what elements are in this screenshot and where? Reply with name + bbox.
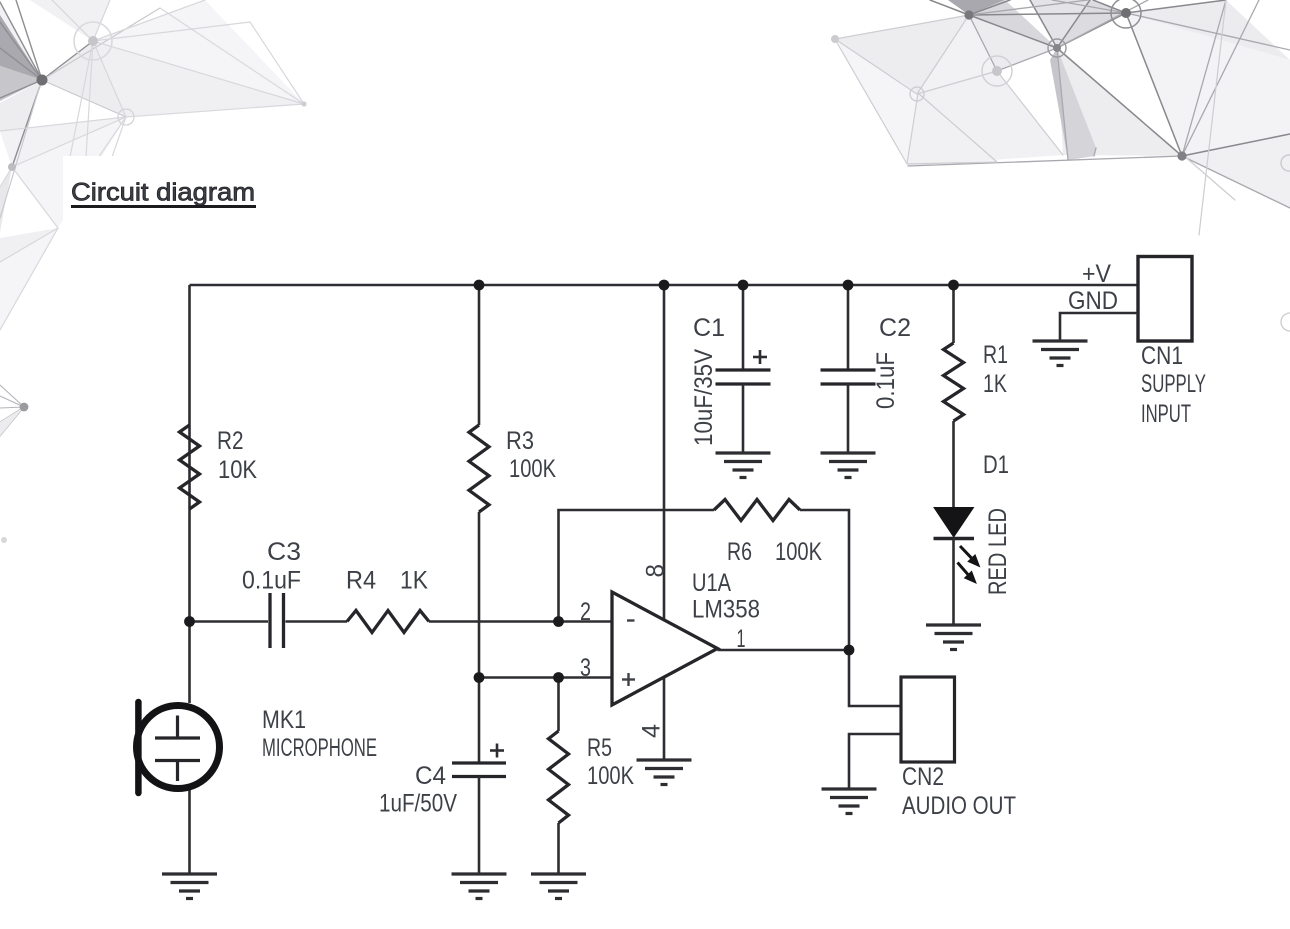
svg-text:R3: R3 [506,427,534,455]
svg-text:Circuit diagram: Circuit diagram [71,179,255,207]
resistor R5 [549,731,569,823]
junction node at pin 2 / feedback [553,616,564,627]
svg-text:SUPPLY: SUPPLY [1141,370,1206,398]
svg-text:+V: +V [1082,260,1111,288]
wire C1 to ground [742,384,745,453]
wire CN1 GND pin to ground [1060,313,1138,341]
svg-text:GND: GND [1068,287,1118,315]
svg-text:R1: R1 [983,341,1008,369]
svg-text:4: 4 [638,724,666,738]
ground under R5 [531,874,586,899]
ground under CN1 [1033,341,1088,366]
svg-text:C4: C4 [415,762,446,790]
svg-text:R2: R2 [217,427,244,455]
svg-text:AUDIO OUT: AUDIO OUT [902,792,1016,820]
microphone MK1 element plates [155,716,200,782]
wire output node down to CN2 pin 1 [849,650,901,706]
plus sign inside op-amp [622,673,635,686]
wire op-amp output to node [718,649,850,652]
svg-text:R6: R6 [727,538,752,566]
junction node on rail at C2 [843,280,854,291]
capacitor C1 polarized [716,370,771,384]
junction node on rail at R1 [948,280,959,291]
ground under C2 [821,453,876,478]
connector CN2 [901,677,955,762]
svg-text:MICROPHONE: MICROPHONE [262,734,377,762]
wire pin3 node to R5 [557,678,560,732]
svg-text:1: 1 [737,625,746,653]
resistor R4 [347,611,429,633]
capacitor C1 wire from rail [742,285,745,370]
junction node on rail at pin 8 [659,280,670,291]
minus sign inside op-amp [627,619,635,621]
svg-text:C2: C2 [879,314,911,342]
wire LED to ground [952,539,955,626]
capacitor C2 [821,370,876,384]
svg-text:INPUT: INPUT [1141,400,1191,428]
LED D1 red [934,508,974,538]
svg-text:R5: R5 [587,734,612,762]
resistor R2 [180,425,200,509]
svg-text:1K: 1K [983,370,1007,398]
svg-text:10K: 10K [218,456,257,484]
LED D1 cathode bar [934,537,975,541]
wire R3 to C4 crossing minus-input wire [478,512,481,763]
wire C3 to R4 [286,620,348,623]
svg-text:C3: C3 [267,538,301,566]
title underline [71,205,256,208]
svg-text:3: 3 [580,654,591,682]
ground under CN2 [822,789,877,814]
ground under C4 [452,874,507,899]
svg-text:100K: 100K [509,455,556,483]
junction node on rail at C1 [738,280,749,291]
wire feedback from pin 2 node up and to R6 [559,510,715,622]
wire R6 to output node [800,510,849,650]
svg-text:10uF/35V: 10uF/35V [690,349,718,446]
plus sign of C4 [490,744,504,758]
wire C2 to ground [847,384,850,453]
op-amp U1A LM358 [612,592,718,705]
wire op-amp pin 4 to ground [663,678,666,761]
ground at op-amp pin 4 [637,760,692,785]
wire op-amp pin 8 to +V rail [663,285,666,620]
wire R5 to ground [557,823,560,874]
junction node at pin 3 / R5 [553,672,564,683]
wire R1 to LED D1 [952,421,955,507]
resistor R6 [714,500,800,521]
wire node A to C3 [190,620,269,623]
svg-text:0.1uF: 0.1uF [872,352,900,409]
svg-text:0.1uF: 0.1uF [242,567,301,595]
wire microphone to ground [188,790,191,874]
resistor R3 [469,425,489,512]
LED D1 emission arrow 1 [960,546,980,567]
resistor R1 [944,343,964,421]
svg-text:U1A: U1A [692,569,731,597]
wire op-amp pin 3 line [479,676,612,679]
svg-text:100K: 100K [775,538,822,566]
wire +V top rail [190,284,1139,287]
svg-text:RED LED: RED LED [984,508,1012,595]
wire R1 branch from rail [952,285,955,343]
svg-text:LM358: LM358 [692,596,760,624]
junction node on rail at R3 [474,280,485,291]
svg-text:CN2: CN2 [902,763,944,791]
svg-text:2: 2 [580,598,591,626]
svg-text:MK1: MK1 [262,706,306,734]
wire CN2 pin 2 to ground [849,734,901,789]
svg-text:C1: C1 [693,314,725,342]
ground under microphone MK1 [162,874,217,899]
svg-text:D1: D1 [983,451,1009,479]
svg-text:8: 8 [642,564,670,578]
ground under LED D1 [926,625,981,650]
ground under C1 [716,453,771,478]
LED D1 emission arrow 2 [958,563,977,584]
wire left branch from +V rail to microphone [188,285,191,703]
connector CN1 [1138,257,1192,342]
junction node at output [844,645,855,656]
wire R4 to op-amp pin 2 [429,620,612,623]
svg-text:1uF/50V: 1uF/50V [379,790,457,818]
plus sign of C1 [753,350,767,364]
svg-text:1K: 1K [400,567,428,595]
capacitor C2 wire from rail [847,285,850,370]
wire C4 to ground [478,777,481,875]
svg-text:R4: R4 [346,567,376,595]
junction node at R3 / C4 / pin 3 [474,672,485,683]
capacitor C3 [270,593,284,648]
svg-text:CN1: CN1 [1141,342,1183,370]
svg-text:100K: 100K [587,762,634,790]
microphone MK1 side bar [135,702,142,793]
microphone MK1 body [137,706,220,789]
wire R3 branch: rail to R3 [478,285,481,425]
junction node at microphone / C3 [184,616,195,627]
capacitor C4 polarized [452,763,506,777]
